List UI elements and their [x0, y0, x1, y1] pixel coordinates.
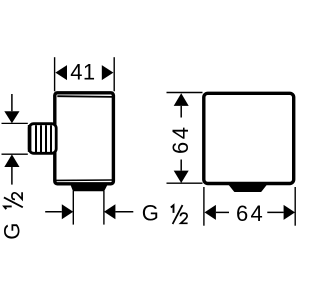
front-face top edge line	[57, 95, 113, 98]
outlet pipe left line	[72, 191, 74, 225]
outlet nozzle (front view)	[229, 184, 266, 191]
extension line connector top	[2, 122, 28, 124]
dim 64 horizontal left extension line	[203, 187, 205, 226]
svg-text:G: G	[0, 223, 25, 240]
svg-text:64: 64	[236, 201, 265, 226]
dim arrow up to connector bottom	[4, 154, 19, 167]
connector thread rib 1	[35, 125, 37, 152]
dim 41 left extension line	[54, 57, 56, 91]
front-face bottom edge line	[56, 179, 113, 181]
escutcheon plate (front view)	[204, 93, 294, 183]
extension line connector bottom	[2, 153, 28, 155]
wall outlet body (side view)	[55, 93, 114, 184]
connector thread rib 4	[50, 125, 52, 152]
dim 41 left arrow	[55, 65, 67, 80]
outlet pipe right line	[103, 191, 105, 225]
dim 64 horizontal right arrow	[267, 211, 283, 213]
svg-text:64: 64	[168, 125, 193, 154]
connector thread rib 3	[45, 125, 47, 152]
dim arrow left to outlet pipe	[104, 204, 115, 219]
dim arrow down to connector top	[11, 94, 13, 111]
svg-text:G: G	[142, 201, 159, 226]
dim arrow right to outlet pipe	[45, 211, 62, 213]
dim 64 vertical bottom extension line	[167, 182, 203, 184]
dim 64 vertical top extension line	[167, 92, 203, 94]
dim 41 right extension line	[113, 57, 115, 91]
dim 64 vertical up arrow	[174, 93, 189, 106]
svg-text:41: 41	[70, 60, 95, 85]
outlet flange (side view)	[71, 184, 107, 190]
dim 41 right arrow	[102, 65, 114, 80]
connector thread rib 2	[40, 125, 42, 152]
dim 64 horizontal right extension line	[294, 187, 296, 226]
threaded connector (side view)	[29, 124, 56, 154]
dim 64 vertical down arrow	[180, 160, 182, 171]
dim 64 horizontal left arrow	[205, 205, 216, 220]
